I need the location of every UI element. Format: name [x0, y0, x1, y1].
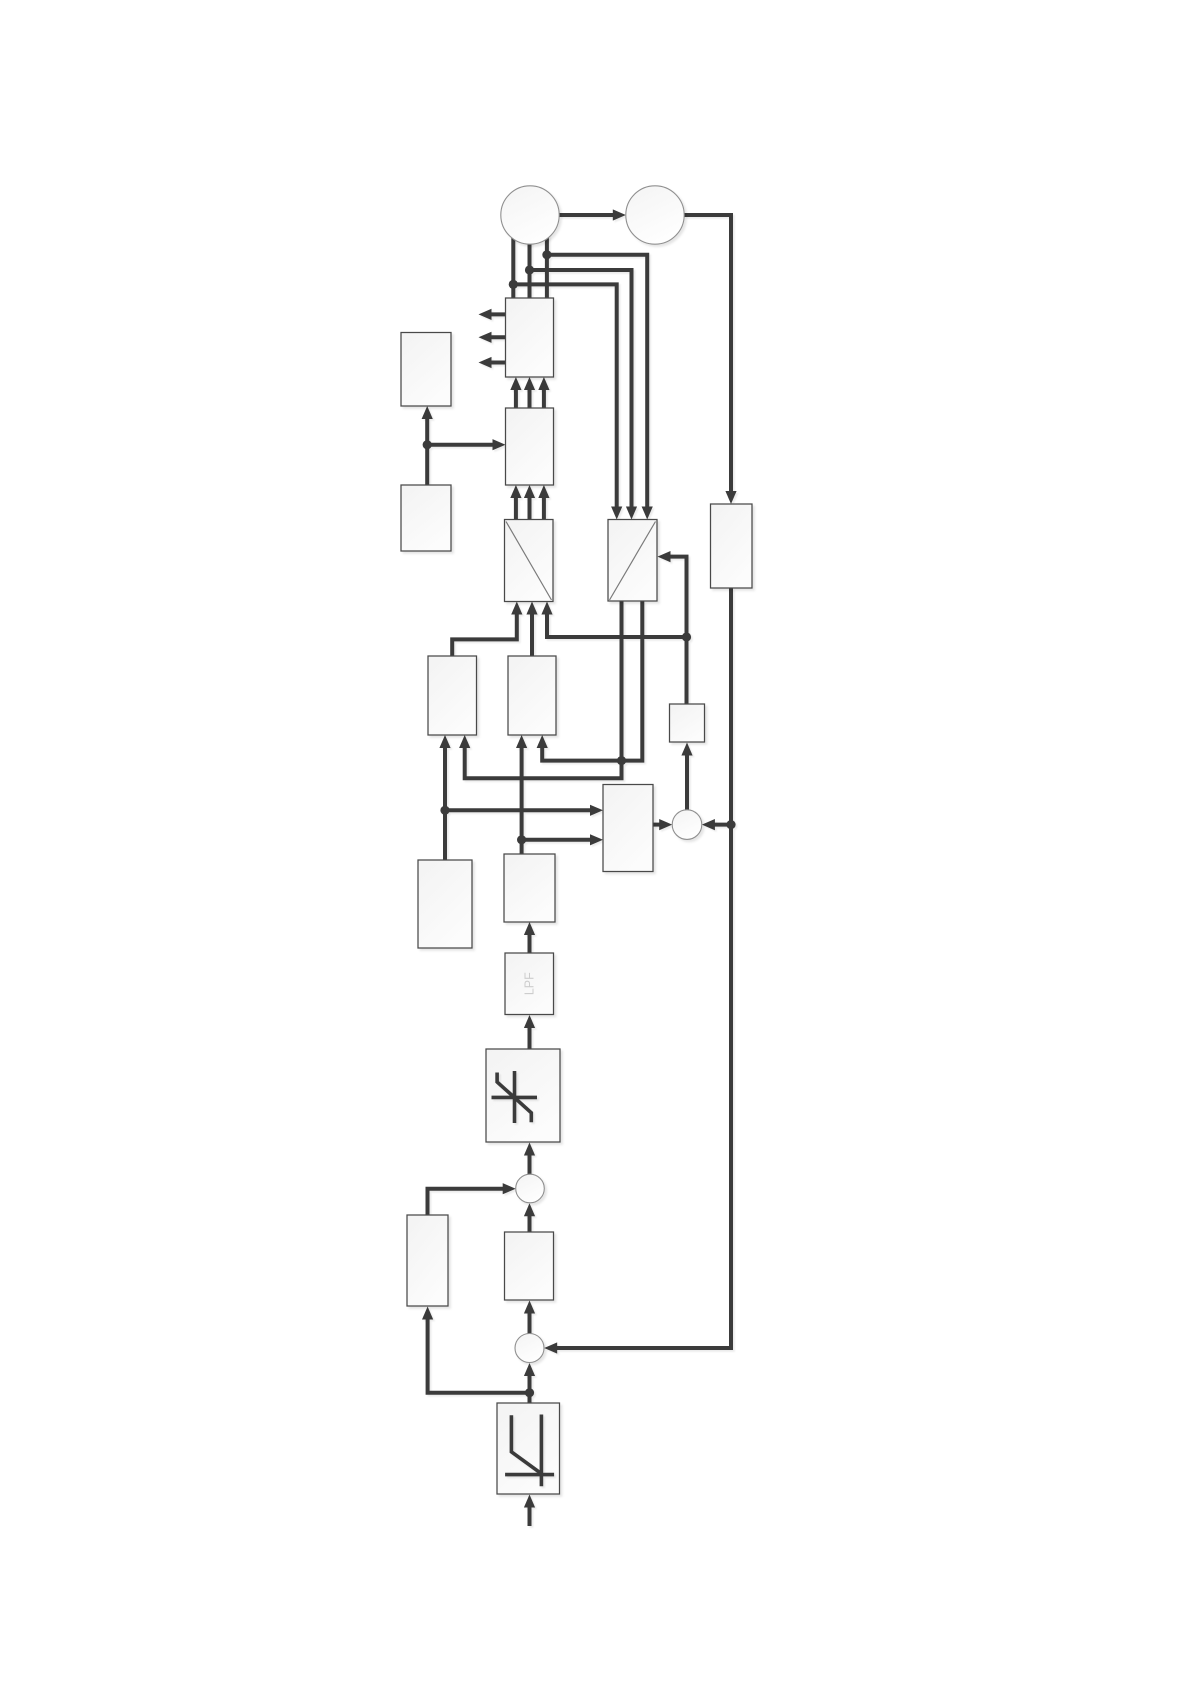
- svg-text:LPF: LPF: [522, 972, 536, 995]
